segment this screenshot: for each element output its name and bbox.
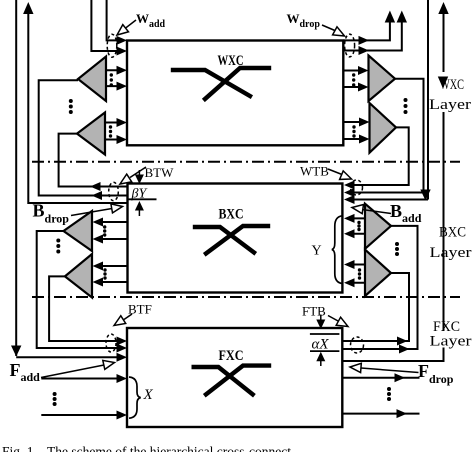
pointer BTW	[130, 167, 146, 178]
arrow FTB2 mid-wire right	[399, 345, 410, 354]
FXC box	[127, 328, 342, 427]
arrow F_add port1 into FXC	[117, 374, 128, 383]
pointer FTB	[328, 316, 339, 322]
FXC cross-connect symbol	[194, 366, 269, 395]
WXC box	[127, 41, 343, 146]
arrow BTW1 mid-wire left	[90, 182, 101, 191]
wire F_drop port 2 stub	[342, 413, 419, 415]
svg-text:BXC: BXC	[219, 207, 244, 223]
arrow down WXC layer marker	[438, 77, 448, 89]
svg-text:WXC: WXC	[440, 77, 464, 93]
arrow BTW2 mid-wire left	[92, 191, 103, 200]
arrow WTB2 into BXC	[344, 188, 355, 197]
pointer W_drop	[322, 25, 336, 31]
wire W_drop 1 out of WXC, up with arrow	[343, 21, 390, 40]
dots between B-L1 and B-L2	[56, 239, 60, 243]
dim alphaX bottom bar	[310, 350, 339, 352]
arrow T-L2 out1 into WXC	[117, 118, 128, 127]
svg-text:WTB: WTB	[300, 164, 329, 179]
arrow B_add into BXC	[344, 195, 355, 204]
ellipse WTB ports	[351, 180, 363, 195]
wire WXC outputs to combiner T-R2	[343, 122, 361, 139]
arrow down F_add corner	[11, 346, 21, 357]
wire BTF 1: B-L1 apex down into FXC	[37, 231, 117, 348]
wire F_add trunk from top edge down to FXC input	[16, 0, 117, 357]
svg-text:Layer: Layer	[430, 245, 472, 261]
dots B-R1 ports	[357, 221, 360, 224]
arrow BXC out to B-L2 b	[93, 278, 104, 287]
arrow B-R1 out b into BXC	[344, 229, 355, 238]
splitter B-R2 (BXC right)	[365, 250, 391, 296]
arrow BTF1 into FXC	[117, 337, 128, 346]
dash-dot separator BXC/FXC	[32, 296, 460, 298]
wire F_add port 2 stub	[41, 414, 117, 416]
dash-dot separator WXC/BXC	[32, 161, 460, 163]
wire BTW 2: BXC out to WXC splitter T-L2 apex	[59, 134, 128, 187]
arrow W_drop1 mid-wire	[359, 36, 370, 45]
ellipse FTB ports	[351, 337, 364, 353]
arrow T-L2 out2 into WXC	[117, 135, 128, 144]
dots B-L2 ports	[103, 268, 106, 271]
arrow up W_drop1	[385, 11, 395, 23]
wire F trunk: FXC out up right side to top with arrow	[342, 13, 443, 361]
dots B-R2 ports	[358, 268, 361, 271]
svg-text:αX: αX	[312, 337, 330, 353]
wire BXC outputs to B-L2 combiner	[103, 266, 128, 282]
dim alphaX arrow up	[320, 359, 322, 366]
combiner B-L2 (BXC left)	[65, 254, 92, 298]
arrow WXC to T-R1 in2	[358, 83, 369, 92]
svg-text:FXC: FXC	[219, 348, 244, 364]
wire T-L2 outputs into WXC	[105, 123, 117, 140]
arrow F_drop2 mid-wire right	[397, 409, 408, 418]
svg-text:BTF: BTF	[128, 302, 152, 317]
pointer F_drop	[361, 368, 419, 373]
combiner T-R1 (WXC right)	[369, 56, 396, 102]
svg-text:βY: βY	[131, 187, 149, 202]
pointer B_drop	[71, 209, 112, 216]
dots F_add ports	[53, 392, 57, 396]
wire B_add from top edge into BXC	[353, 0, 428, 200]
arrow WXC to T-R1 in1	[358, 66, 369, 75]
pointer F_add	[41, 365, 104, 378]
BXC box	[128, 184, 343, 293]
dim alphaX arrow down	[320, 315, 322, 323]
arrow up W_drop2	[397, 11, 407, 23]
arrow F trunk into FXC	[117, 353, 128, 362]
pointer BTF	[124, 314, 132, 320]
ellipse BTW ports	[109, 182, 119, 200]
svg-text:Y: Y	[312, 244, 322, 259]
arrow F_add port2 into FXC	[117, 411, 128, 420]
arrow WXC to T-R2 in2	[359, 135, 370, 144]
ellipse W_drop ports	[345, 34, 355, 57]
arrow WXC to T-R2 in1	[359, 118, 370, 127]
wire W_add 2 from top into WXC	[91, 0, 117, 51]
splitter B-R1 (BXC right)	[365, 204, 391, 249]
arrow BTF2 into FXC	[117, 344, 128, 353]
arrow W_add1 into WXC	[117, 36, 128, 45]
wire B_drop: BXC left out, up to top with arrow	[28, 13, 127, 203]
svg-text:X: X	[143, 387, 154, 403]
dots B-L1 ports	[103, 225, 106, 228]
dots between T-R1 and T-R2	[404, 98, 408, 102]
ellipse BTF ports	[106, 334, 116, 352]
dim alphaX top bar	[310, 333, 340, 335]
dim betaY arrow down	[138, 170, 140, 177]
dots T-L1 outputs	[110, 73, 113, 76]
svg-text:BTW: BTW	[145, 165, 175, 180]
dots T-L2 outputs	[109, 125, 112, 128]
arrow W_drop2 mid-wire	[359, 46, 370, 55]
arrow up B_drop exit top	[23, 2, 33, 14]
combiner T-R2 (WXC right)	[370, 103, 397, 153]
arrow up F trunk top	[438, 2, 448, 14]
wire BXC inputs from splitter B-R1	[353, 218, 365, 233]
arrow BXC out to B-L2 a	[93, 262, 104, 271]
wire W_add 1 from top into WXC	[107, 0, 117, 40]
dim betaY arrow up	[138, 209, 140, 216]
wire BTW 1: BXC out to WXC splitter T-L1 apex	[39, 80, 128, 195]
wire F_drop port 1 stub	[342, 377, 419, 379]
arrow WTB1 into BXC	[344, 181, 355, 190]
wire WXC outputs to combiner T-R1	[343, 71, 360, 88]
dots between T-L1 and T-L2	[69, 99, 73, 103]
dots F_drop ports	[387, 387, 391, 391]
WXC cross-connect symbol	[173, 68, 269, 99]
arrow B-R1 out a into BXC	[344, 214, 355, 223]
dots between B-R1 and B-R2	[395, 242, 399, 246]
pointer W_add	[125, 20, 136, 29]
dim betaY bar	[127, 198, 157, 200]
arrow B-R2 out a into BXC	[344, 260, 355, 269]
splitter T-L1 (WXC left)	[78, 57, 106, 102]
arrow BXC out to B-L1 b	[93, 235, 104, 244]
arrow W_add2 into WXC	[117, 47, 128, 56]
arrow down B_add corner	[420, 190, 430, 201]
wire BXC outputs to B-L1 combiner	[103, 222, 128, 239]
wire FTB 2: FXC out up to B-R1 apex	[342, 226, 417, 349]
pointer WTB	[328, 169, 342, 175]
dots T-R1 inputs	[352, 73, 355, 76]
pointer B_add	[362, 210, 391, 214]
wire F_add port 1 stub	[41, 378, 117, 380]
wire T-L1 outputs into WXC	[106, 70, 117, 86]
arrow FTB1 mid-wire right	[397, 337, 408, 346]
arrow T-L1 out1 into WXC	[117, 66, 128, 75]
combiner B-L1 (BXC left)	[64, 211, 93, 251]
svg-text:Fig. 1. The scheme of the: Fig. 1. The scheme of the hierarchical c…	[2, 444, 291, 452]
splitter T-L2 (WXC left)	[77, 113, 105, 155]
arrow T-L1 out2 into WXC	[117, 82, 128, 91]
svg-text:FTB: FTB	[302, 304, 326, 319]
arrow B-R2 out b into BXC	[344, 278, 355, 287]
arrow F_drop1 mid-wire right	[395, 373, 406, 382]
wire BTF 2: B-L2 apex down into FXC	[49, 276, 117, 341]
wire FTB 1: FXC out up to B-R2 apex	[342, 273, 409, 341]
svg-text:Layer: Layer	[429, 97, 471, 113]
wire WTB 2: T-R1 apex down into BXC	[353, 79, 424, 193]
svg-text:Layer: Layer	[430, 334, 472, 350]
arrow BXC out to B-L1 a	[93, 218, 104, 227]
svg-text:BXC: BXC	[439, 225, 466, 241]
wire WTB 1: T-R2 apex down into BXC	[353, 127, 409, 185]
ellipse W_add ports	[107, 34, 117, 57]
wire W_drop 2 out of WXC, up with arrow	[343, 21, 402, 51]
dots T-R2 inputs	[352, 125, 355, 128]
wire BXC inputs from splitter B-R2	[353, 265, 365, 283]
BXC cross-connect symbol	[195, 226, 268, 254]
